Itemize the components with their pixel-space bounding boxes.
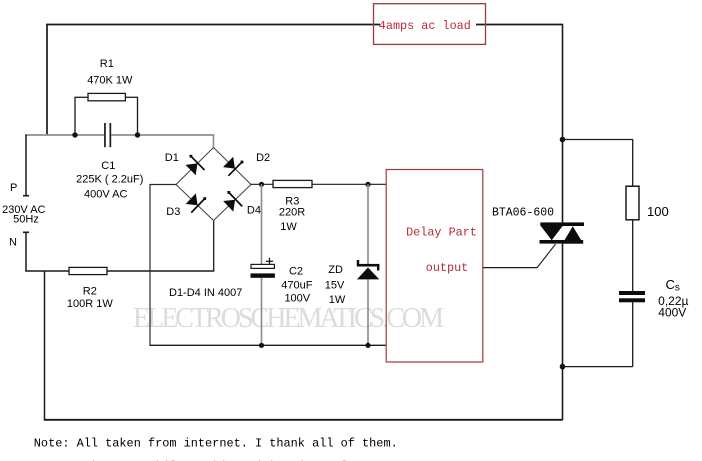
wire main AC line (gray) [25,135,214,149]
label R2 [67,286,113,311]
resistor R3 [273,180,312,187]
wire R2 line [25,221,214,272]
svg-text:C1: C1 [101,160,115,172]
label P [10,182,17,194]
wire C2 branch (gray) [261,184,263,345]
svg-text:100R 1W: 100R 1W [67,298,113,310]
svg-text:C2: C2 [289,265,303,277]
wire triac vertical [562,24,564,420]
svg-text:D2: D2 [256,152,270,164]
diode D4 [223,191,242,212]
diode D3 [186,193,206,212]
terminal N [23,232,29,272]
label N [9,237,17,249]
node junction snubber top [560,137,566,143]
note text second line cropped [35,459,392,461]
label BTA06-600 [492,207,554,220]
svg-text:P: P [10,182,17,194]
label 4amps ac load [379,19,471,33]
bridge diamond wires [176,148,251,221]
svg-text:4amps ac load: 4amps ac load [379,19,471,33]
svg-text:470K 1W: 470K 1W [87,75,133,87]
svg-text:D3: D3 [166,206,180,218]
label R1 [87,58,133,87]
terminal P [23,135,29,196]
wire DC+ line y=184 [251,183,387,185]
wire left top vertical [46,24,48,135]
wire DC- rail y=345 [150,344,387,346]
svg-text:225K ( 2.2uF): 225K ( 2.2uF) [76,173,143,185]
svg-text:220R: 220R [279,207,305,219]
node junction DC- at C2 [259,343,264,348]
label output [426,261,468,275]
svg-text:1W: 1W [280,221,297,233]
svg-text:470uF: 470uF [281,279,312,291]
diode D2 [223,157,243,176]
svg-text:R2: R2 [83,286,97,298]
label Cs [658,277,688,319]
svg-text:output: output [426,261,468,275]
node junction R1 right [135,132,140,137]
svg-text:100V: 100V [284,293,310,305]
node junction DC- at ZD [365,343,370,348]
zener ZD [357,260,380,279]
triac BTA06-600 [540,222,585,243]
delay part box [386,170,483,363]
label D1 [165,152,179,164]
capacitor C2 [251,258,275,278]
resistor R1 [88,93,125,100]
label ZD [325,264,346,306]
label C2 [281,265,312,304]
resistor R2 [69,267,107,274]
svg-text:ELECTROSCHEMATICS.COM: ELECTROSCHEMATICS.COM [133,303,444,334]
wire top rail [46,24,562,26]
svg-text:D4: D4 [247,205,261,217]
wire bridge left to DC- rail [150,184,177,345]
label C1 [76,160,143,201]
svg-text:1W: 1W [329,294,346,306]
node junction snubber bottom [560,364,566,370]
svg-text:R3: R3 [285,195,299,207]
label D3 [166,206,180,218]
label D2 [256,152,270,164]
node junction DC+ at ZD [365,182,370,187]
wire left loop bottom [44,271,563,421]
load box 4amps [374,4,486,45]
node junction R1 left [72,132,77,137]
label Delay Part [406,226,477,240]
svg-text:400V: 400V [658,305,686,319]
svg-text:Note: All taken from internet.: Note: All taken from internet. I thank a… [34,437,398,451]
svg-text:15V: 15V [325,279,345,291]
wire snubber branch [563,140,634,367]
svg-text:400V AC: 400V AC [84,189,127,201]
wire ZD branch (gray) [367,184,369,345]
svg-text:BTA06-600: BTA06-600 [492,207,554,220]
svg-text:Delay Part: Delay Part [406,226,477,240]
svg-text:Cs: Cs [666,277,680,294]
label 230V AC 50Hz [2,204,45,226]
svg-text:N: N [9,237,17,249]
svg-text:R1: R1 [100,58,114,70]
capacitor Cs [619,291,645,302]
svg-text:ZD: ZD [328,264,343,276]
wire gate output [483,244,556,268]
diode D1 [186,155,205,176]
resistor R1 leads [74,97,138,135]
svg-text:50Hz: 50Hz [13,213,39,225]
resistor 100 [626,186,639,220]
svg-text:D1-D4 IN 4007: D1-D4 IN 4007 [169,287,242,299]
svg-text:D1: D1 [165,152,179,164]
label D4 [247,205,261,217]
note text [34,437,398,451]
svg-text:100: 100 [647,204,669,219]
label D1-D4 IN 4007 [169,287,242,299]
label 100 [647,204,669,219]
capacitor C1 [104,123,111,147]
label R3 [279,195,305,233]
node junction DC+ at C2 [259,182,264,187]
